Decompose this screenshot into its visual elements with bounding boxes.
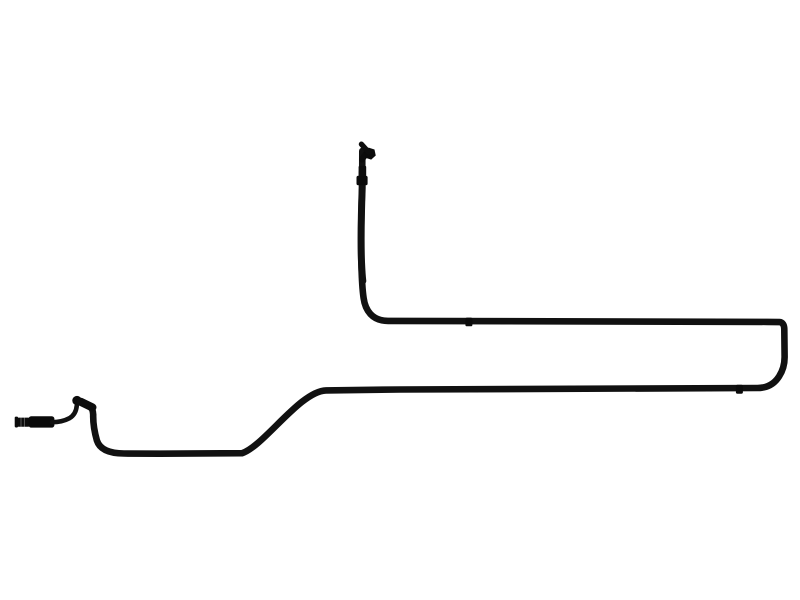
slightly thicker upper vertical hose section: [361, 172, 363, 281]
hose end round cap (knob): [72, 396, 81, 405]
top end: hex flare nut: [362, 147, 377, 161]
main formed tube (steel line): [90, 151, 785, 454]
union collar on upper horizontal run: [465, 318, 472, 327]
rubber hose sleeve (angled): [81, 402, 93, 408]
left end: ribbed section: [17, 418, 29, 427]
union collar on middle horizontal run: [736, 385, 743, 394]
left end: quick-connect fitting flange: [15, 417, 18, 428]
top fitting: ferrule sleeve: [359, 166, 367, 177]
short tube from connector to hose: [52, 406, 77, 423]
filler between tube and hex nut: [362, 152, 368, 160]
left end: connector body cylinder: [29, 416, 55, 427]
top fitting: wide grommet block: [357, 176, 368, 186]
top end: angled tube tip: [361, 144, 368, 152]
